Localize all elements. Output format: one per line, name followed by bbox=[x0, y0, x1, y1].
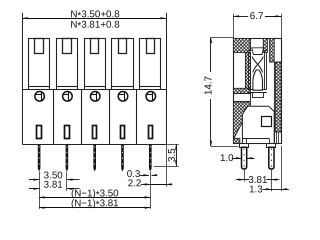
svg-text:N*3.81+0.8: N*3.81+0.8 bbox=[70, 20, 120, 32]
svg-text:14.7: 14.7 bbox=[203, 76, 214, 95]
svg-text:3.5: 3.5 bbox=[167, 148, 178, 162]
svg-text:2.2: 2.2 bbox=[128, 178, 142, 189]
svg-text:6.7: 6.7 bbox=[250, 11, 264, 22]
svg-text:3.81: 3.81 bbox=[44, 180, 63, 191]
svg-text:(N−1)*3.81: (N−1)*3.81 bbox=[71, 198, 119, 210]
svg-text:1.3: 1.3 bbox=[249, 184, 263, 195]
